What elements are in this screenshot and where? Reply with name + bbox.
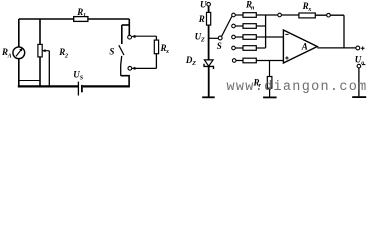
selector S pivot contact bbox=[218, 36, 222, 40]
svg-text:www.diangon.com: www.diangon.com bbox=[227, 80, 368, 95]
ground bar (output) bbox=[352, 96, 366, 98]
wire: blade lower lead bbox=[121, 56, 122, 76]
selector contact 5 bbox=[232, 59, 236, 63]
wire: minus terminal to ground bbox=[358, 68, 360, 96]
selector contact 3 bbox=[232, 35, 236, 39]
selector contact 1 bbox=[232, 13, 236, 17]
wire: thin link ammeter-R2 bbox=[19, 80, 40, 82]
resistor Rf box bbox=[299, 13, 315, 18]
svg-text:U: U bbox=[200, 0, 207, 9]
wire: noninverting feed down bbox=[269, 61, 271, 77]
wire: R2 branch bottom bbox=[39, 57, 41, 87]
wire: R2 wiper drop bbox=[48, 51, 50, 87]
svg-text:S: S bbox=[217, 41, 222, 51]
battery Us long plate bbox=[77, 82, 79, 96]
wire: step to bottom wire bbox=[121, 76, 129, 87]
svg-text:x: x bbox=[307, 7, 311, 13]
svg-text:S: S bbox=[109, 46, 114, 56]
wire: contact3 stub bbox=[235, 36, 243, 38]
wire: left circuit top wire right segment bbox=[88, 18, 129, 20]
resistor R2 box bbox=[38, 44, 42, 57]
node circle (Rf right) bbox=[327, 13, 331, 17]
output plus sign bbox=[361, 46, 365, 50]
ground bar (Dz) bbox=[202, 96, 215, 98]
svg-text:Z: Z bbox=[191, 61, 196, 67]
wire: R2 branch top bbox=[39, 19, 41, 44]
resistor Rx box bbox=[154, 40, 158, 54]
svg-text:Z: Z bbox=[200, 37, 205, 43]
zener Dz cathode bar with ticks bbox=[204, 64, 214, 69]
wire: switch feed from top wire bbox=[128, 19, 130, 35]
wire: U terminal to resistor R bbox=[208, 6, 210, 12]
wire: Rx top vertical bbox=[155, 36, 157, 40]
switch S top contact bbox=[128, 35, 132, 39]
wire: contact5 stub bbox=[236, 60, 243, 62]
wire: Rx top connection with arrow bbox=[132, 35, 157, 38]
battery Us short plate bbox=[81, 85, 83, 92]
ammeter RA circle bbox=[13, 47, 25, 59]
output minus sign bbox=[362, 64, 365, 66]
wire: box2 to bus bbox=[256, 25, 265, 27]
resistor range box 1 bbox=[243, 13, 256, 18]
op-amp plus sign bbox=[285, 56, 288, 59]
wire: bus to inverting input bbox=[266, 36, 284, 38]
wire: contact1 stub bbox=[235, 14, 243, 16]
svg-text:2: 2 bbox=[64, 54, 68, 60]
svg-text:A: A bbox=[7, 54, 12, 60]
wire: left vertical lower (ammeter to bottom wire) bbox=[18, 59, 20, 87]
selector contact 4 bbox=[232, 46, 236, 50]
ammeter RA needle arrow bbox=[16, 48, 23, 56]
wire: Rf to feedback corner bbox=[315, 14, 344, 16]
op-amp A triangle bbox=[283, 30, 317, 63]
op-amp minus sign bbox=[285, 33, 288, 35]
wire: box5 to noninverting input bbox=[256, 60, 283, 62]
wire: bottom wire right of battery bbox=[83, 85, 130, 87]
terminal U circle bbox=[207, 2, 211, 6]
zener diode Dz triangle bbox=[204, 60, 213, 66]
resistor range box 4 bbox=[243, 46, 256, 51]
node circle (summing) bbox=[278, 13, 282, 17]
resistor R1 bbox=[74, 17, 88, 22]
wire: box4 to bus bbox=[256, 47, 265, 49]
svg-text:x: x bbox=[165, 49, 169, 55]
resistor range box 2 bbox=[243, 24, 256, 29]
wire: switch blade branch vertical bbox=[121, 25, 123, 44]
switch S bottom contact bbox=[128, 66, 132, 70]
selector S blade bbox=[222, 17, 232, 37]
resistor range box 3 bbox=[243, 35, 256, 40]
R2 wiper arrow bbox=[42, 50, 49, 52]
wire: Rx bottom vertical bbox=[155, 54, 157, 69]
wire: R to zener junction bbox=[208, 25, 210, 60]
output terminal + circle bbox=[356, 46, 360, 50]
svg-text:R: R bbox=[198, 14, 205, 24]
wire: junction to selector pivot bbox=[209, 37, 219, 39]
wire: bottom wire left of battery bbox=[18, 85, 78, 87]
wire: Rx bottom connection with arrow bbox=[132, 67, 157, 70]
selector contact 2 bbox=[232, 24, 236, 28]
wire: left vertical upper (top wire to ammeter) bbox=[18, 19, 20, 47]
wire: Dz to ground bbox=[208, 66, 210, 96]
wire: box3 to bus bbox=[256, 36, 265, 38]
svg-text:1: 1 bbox=[83, 13, 86, 19]
switch S blade bbox=[119, 45, 124, 55]
wire: feedback vertical bbox=[343, 15, 345, 48]
wire: contact4 stub bbox=[235, 47, 243, 49]
wire: switch blade branch horizontal bbox=[122, 24, 130, 26]
output terminal - circle bbox=[357, 64, 361, 68]
ground bar (R') bbox=[263, 96, 277, 98]
resistor R box (series) bbox=[207, 12, 211, 25]
svg-text:o: o bbox=[361, 60, 364, 66]
wire: R' to ground bbox=[269, 88, 271, 96]
wire: bus vertical bbox=[265, 15, 267, 48]
resistor range box 5 bbox=[243, 58, 256, 63]
wire: contact2 stub bbox=[235, 25, 243, 27]
wire: top wire box1 to Rf bbox=[256, 14, 299, 16]
wire: left circuit top wire left segment bbox=[19, 18, 74, 20]
svg-text:A: A bbox=[301, 42, 308, 52]
wire: op-amp output bbox=[317, 47, 356, 49]
resistor R' box bbox=[267, 77, 272, 89]
